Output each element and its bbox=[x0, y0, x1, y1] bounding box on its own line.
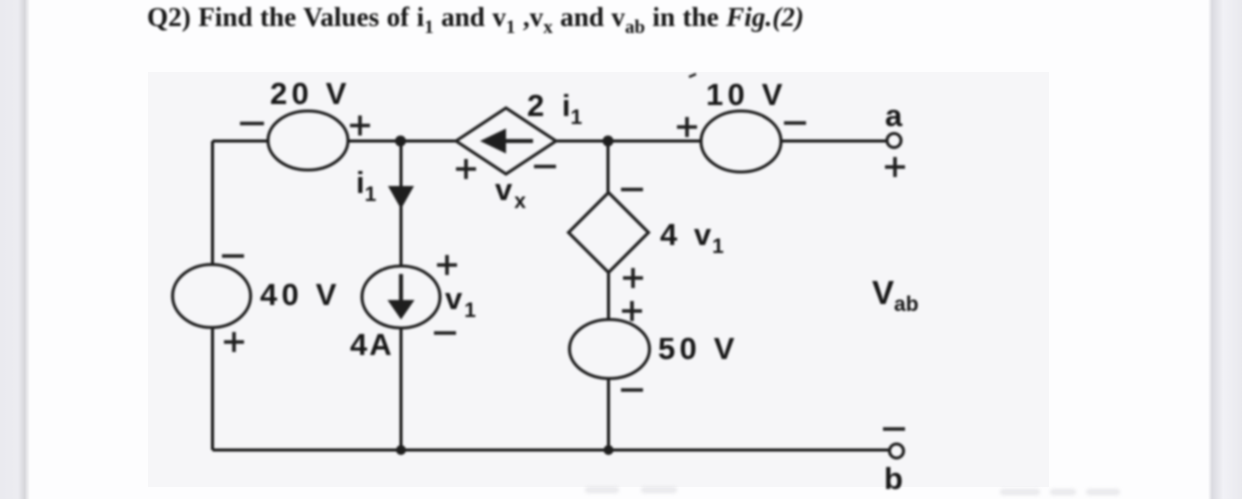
svg-text:Q2) Find the Values of i1 and: Q2) Find the Values of i1 and v1 ,vx and… bbox=[147, 2, 804, 38]
svg-text:4 v1: 4 v1 bbox=[660, 217, 724, 258]
plus sign at terminal a bbox=[885, 157, 905, 177]
wire top-left horizontal bbox=[213, 140, 269, 143]
dependent source 2i1 diamond bbox=[456, 108, 556, 174]
tick mark above 10 V bbox=[689, 74, 696, 77]
wire top: diamond to 10V bbox=[556, 140, 701, 143]
minus sign of vx bbox=[534, 165, 556, 169]
terminal b circle bbox=[890, 444, 904, 458]
wire right vertical diamond to 50V bbox=[607, 272, 610, 320]
node B junction dot bbox=[603, 136, 614, 147]
voltage source 50V ellipse bbox=[570, 320, 650, 379]
plus sign of 20V bbox=[350, 116, 370, 136]
minus sign of 10V bbox=[784, 121, 806, 125]
plus sign of v1 bbox=[437, 255, 457, 275]
svg-text:v1: v1 bbox=[445, 281, 476, 322]
svg-text:2 i1: 2 i1 bbox=[527, 88, 582, 129]
minus sign below 50V bbox=[621, 388, 643, 392]
wire middle vertical lower bbox=[400, 328, 403, 450]
svg-text:10 V: 10 V bbox=[706, 77, 787, 112]
plus sign above 50V bbox=[622, 301, 642, 321]
wire top: 20V to node A bbox=[348, 140, 456, 143]
svg-text:Vab: Vab bbox=[872, 274, 919, 316]
wire right vertical node B to diamond bbox=[607, 141, 610, 193]
minus sign above 4v1 diamond bbox=[621, 188, 643, 192]
plus sign below 40V bbox=[224, 332, 244, 352]
bottom smudge marks bbox=[585, 487, 1120, 495]
svg-text:40 V: 40 V bbox=[260, 277, 341, 312]
wire right vertical 50V to bottom bbox=[607, 378, 610, 450]
bottom junction dot middle bbox=[396, 445, 406, 455]
svg-text:b: b bbox=[884, 461, 903, 496]
svg-text:a: a bbox=[885, 98, 903, 133]
svg-text:20 V: 20 V bbox=[270, 76, 351, 111]
plus sign below 4v1 diamond bbox=[623, 268, 643, 288]
dependent source 4v1 diamond bbox=[569, 193, 649, 273]
minus sign at terminal b bbox=[883, 427, 905, 431]
bottom junction dot right bbox=[604, 445, 614, 455]
wire bottom horizontal bbox=[213, 449, 890, 452]
svg-text:i1: i1 bbox=[356, 165, 377, 206]
plus sign of vx bbox=[456, 159, 476, 179]
arrow inside 2i1 diamond bbox=[504, 139, 533, 143]
voltage source 20V ellipse bbox=[268, 111, 348, 170]
minus sign of 20V bbox=[240, 122, 264, 126]
minus sign above 40V bbox=[222, 254, 244, 258]
svg-text:vx: vx bbox=[495, 172, 526, 213]
arrow inside 4A source bbox=[399, 274, 403, 301]
terminal a circle bbox=[887, 134, 901, 148]
svg-text:50 V: 50 V bbox=[658, 331, 739, 366]
node A junction dot bbox=[395, 136, 406, 147]
svg-text:4A: 4A bbox=[350, 327, 394, 362]
voltage source 40V ellipse bbox=[173, 265, 251, 328]
voltage source 10V ellipse bbox=[701, 111, 781, 172]
wire top: 10V to terminal a bbox=[781, 140, 887, 143]
current source 4A ellipse bbox=[362, 266, 440, 328]
current arrow i1 head bbox=[388, 186, 414, 209]
plus sign of 10V bbox=[677, 117, 697, 137]
wire left vertical upper bbox=[211, 141, 214, 265]
minus sign of v1 bbox=[434, 331, 456, 335]
wire middle vertical upper bbox=[400, 141, 403, 266]
wire left vertical lower bbox=[211, 327, 214, 450]
